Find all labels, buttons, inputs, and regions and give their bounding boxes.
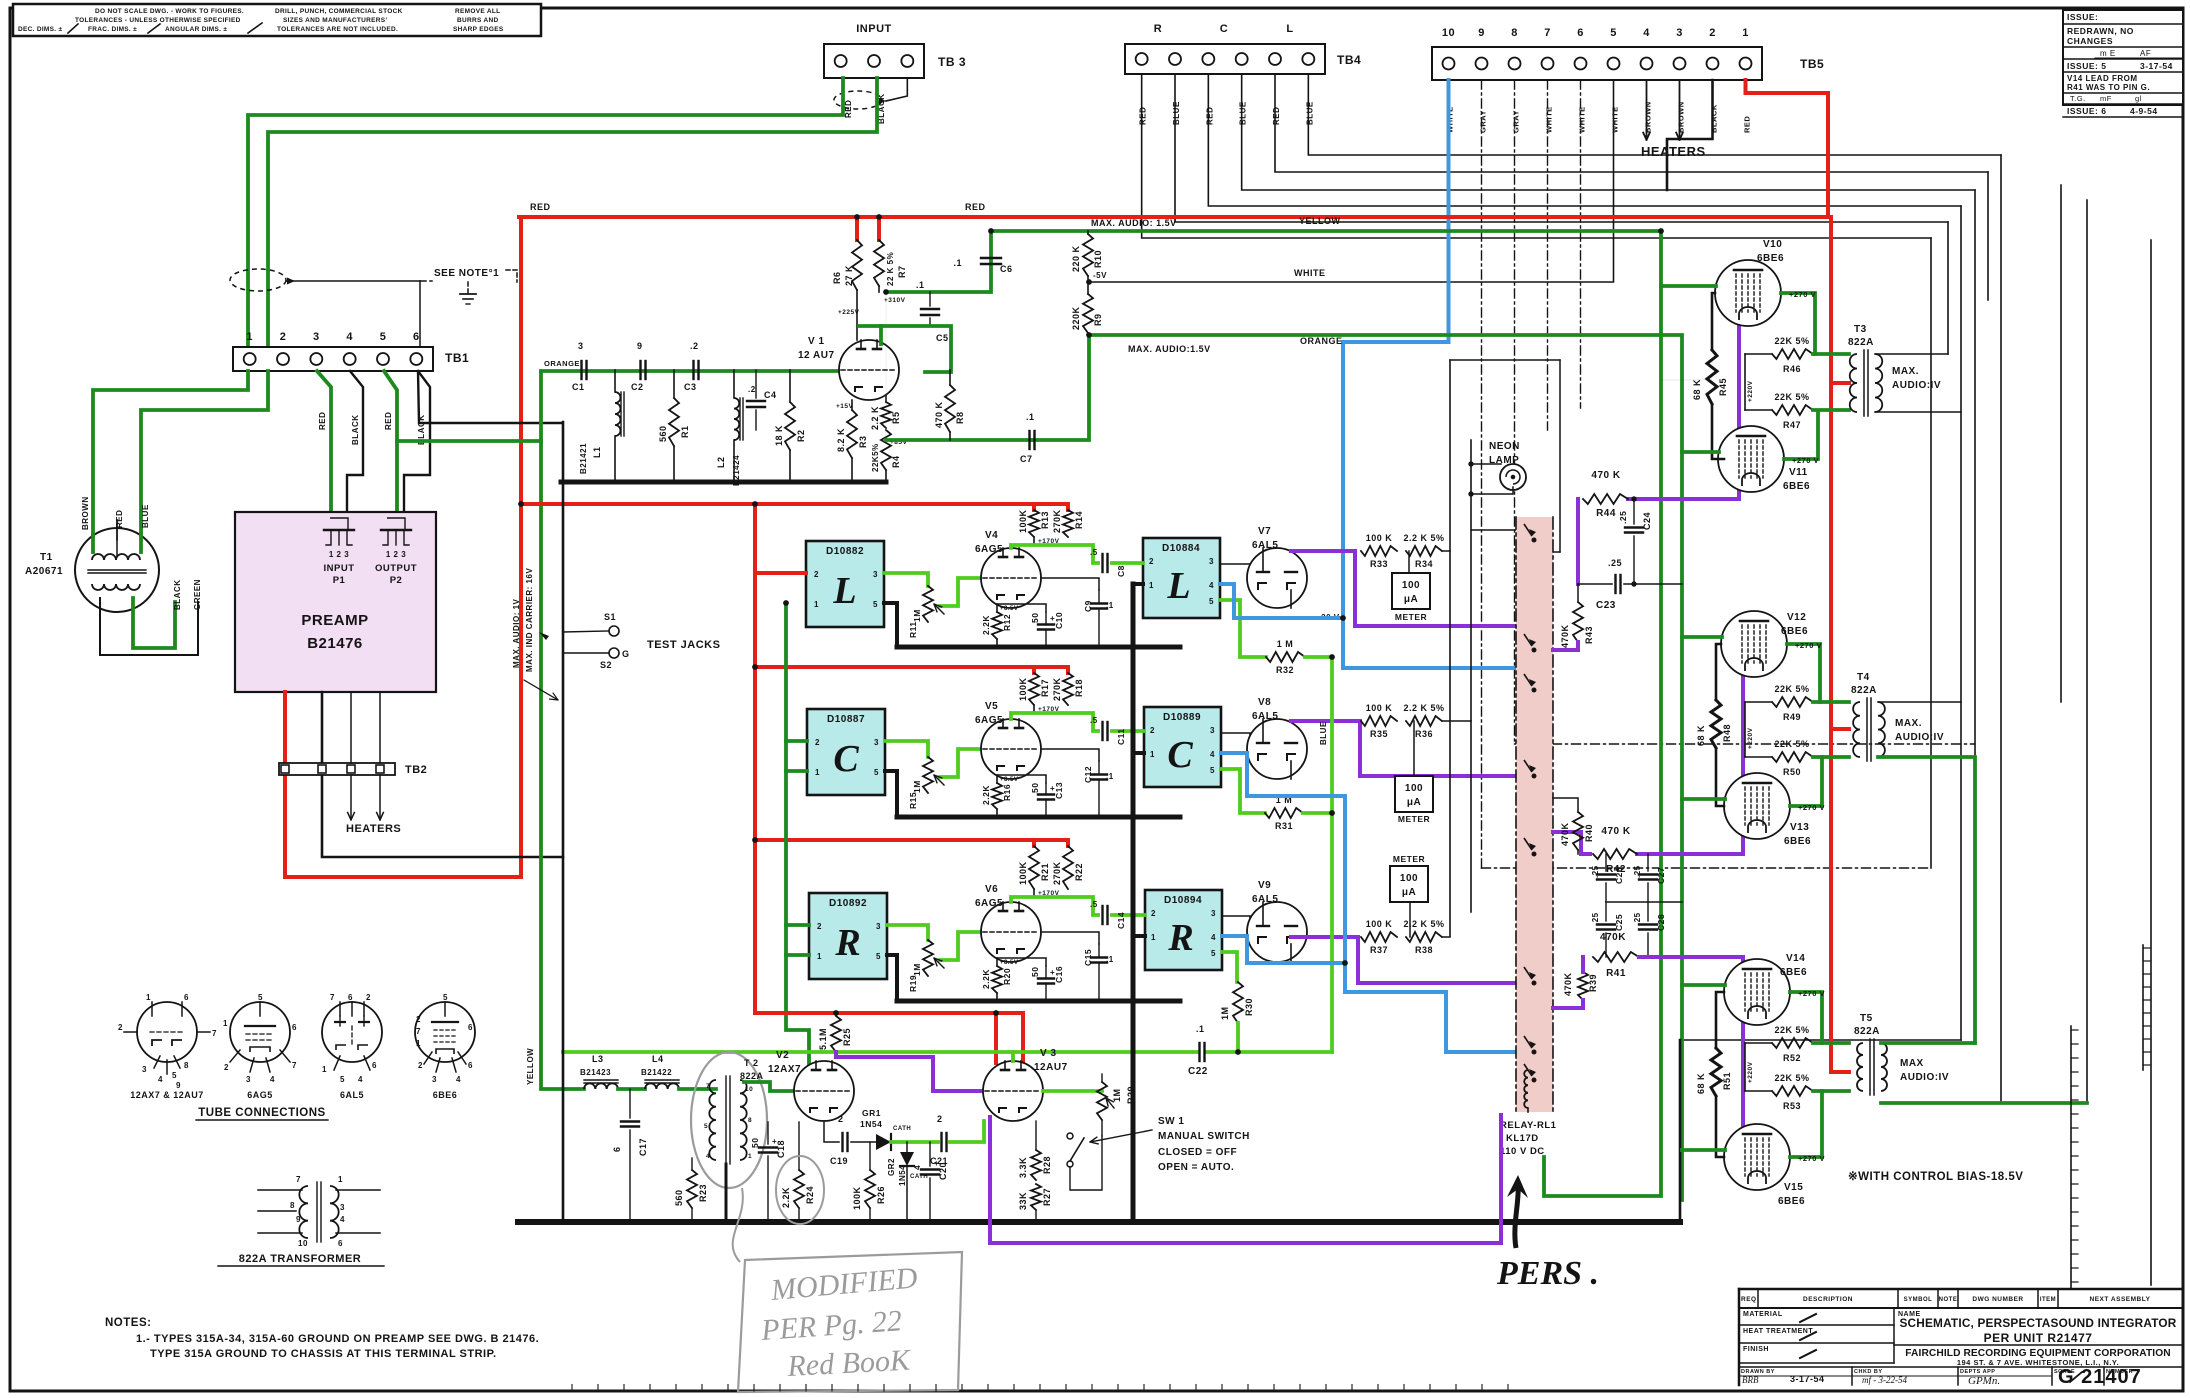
svg-text:1: 1 <box>1149 581 1154 590</box>
wire light green plate through coupling cap <box>1011 545 1098 563</box>
wire black return line above T5 <box>1680 1039 1961 1041</box>
resistor R39 470K <box>1578 972 1588 1000</box>
resistor R1 560 <box>673 370 675 398</box>
svg-text:C: C <box>1220 23 1228 35</box>
svg-text:R30: R30 <box>1244 998 1254 1016</box>
svg-text:RED: RED <box>965 202 986 212</box>
svg-text:822A: 822A <box>1848 337 1874 348</box>
svg-text:5: 5 <box>876 952 881 961</box>
svg-text:3: 3 <box>1676 27 1683 39</box>
svg-text:6: 6 <box>468 1023 473 1032</box>
svg-text:+225V: +225V <box>838 309 860 316</box>
wire green grid stub V12 <box>1682 635 1722 639</box>
svg-text:C27: C27 <box>1656 867 1666 884</box>
wire purple R44 node down to C23 node <box>1576 499 1580 584</box>
svg-text:METER: METER <box>1398 814 1430 824</box>
svg-text:MATERIAL: MATERIAL <box>1743 1311 1783 1318</box>
capacitor C23 .25 <box>1578 583 1612 585</box>
svg-text:GR2: GR2 <box>887 1158 896 1176</box>
svg-text:7: 7 <box>296 1175 301 1184</box>
svg-text:C18: C18 <box>776 1140 786 1158</box>
svg-text:mF: mF <box>2100 94 2112 103</box>
svg-text:-5V: -5V <box>1093 271 1107 280</box>
inductor L2 B21424 with C4 <box>733 370 735 398</box>
wire green TB1-5 branch right <box>397 439 541 443</box>
svg-text:68 K: 68 K <box>1696 725 1706 746</box>
svg-text:6AG5: 6AG5 <box>975 898 1003 909</box>
svg-text:1: 1 <box>322 1065 327 1074</box>
svg-text:WHITE: WHITE <box>1578 106 1587 133</box>
resistor R49 22K 5% <box>1745 701 1772 703</box>
diode GR2 1N54 <box>906 1142 908 1152</box>
ground symbol <box>506 270 517 282</box>
svg-text:L3: L3 <box>592 1054 604 1064</box>
svg-text:470K: 470K <box>1600 932 1626 943</box>
svg-text:ISSUE: 6: ISSUE: 6 <box>2067 106 2106 116</box>
resistor R37 100K <box>1361 932 1397 942</box>
thick ground bus <box>897 815 1180 820</box>
svg-text:REDRAWN, NO: REDRAWN, NO <box>2067 26 2134 36</box>
wire purple vertical V12-V13 <box>1741 677 1745 854</box>
svg-text:AUDIO:IV: AUDIO:IV <box>1892 380 1941 391</box>
wire green long vertical from TB3 black <box>539 372 543 441</box>
svg-text:6AG5: 6AG5 <box>247 1090 273 1100</box>
svg-text:V15: V15 <box>1784 1182 1803 1193</box>
svg-text:TB4: TB4 <box>1337 53 1361 67</box>
resistor R35 100K <box>1361 716 1397 726</box>
svg-text:INPUT: INPUT <box>324 563 355 574</box>
svg-text:4: 4 <box>358 1075 363 1084</box>
svg-text:3: 3 <box>142 1065 147 1074</box>
svg-text:TEST JACKS: TEST JACKS <box>647 639 720 651</box>
meter M3 100uA <box>1390 866 1428 902</box>
svg-text:R38: R38 <box>1415 945 1433 955</box>
svg-text:TYPE 315A GROUND TO CHASSIS A: TYPE 315A GROUND TO CHASSIS AT THIS TERM… <box>150 1348 497 1360</box>
wire blue D10889 pin4 chain <box>1221 753 1516 1052</box>
svg-text:822A: 822A <box>740 1071 764 1081</box>
svg-text:2: 2 <box>418 1061 423 1070</box>
svg-text:C28: C28 <box>1656 914 1666 931</box>
wire black TB1-6 to preamp P2 <box>404 371 430 512</box>
resistor R12 2.2K <box>996 604 998 612</box>
bottom border tick marks <box>571 1385 573 1392</box>
wire black T2 bottom to bus <box>725 1164 728 1222</box>
svg-text:1: 1 <box>815 768 820 777</box>
svg-text:5: 5 <box>873 600 878 609</box>
svg-text:C5: C5 <box>936 333 949 343</box>
svg-text:C26: C26 <box>1614 867 1624 884</box>
wire green pin2 stub row C <box>786 739 807 743</box>
wire green orange-bus <box>1089 335 1682 1200</box>
wire light green R32 to vertical <box>1305 657 1332 1052</box>
capacitor C13 50 <box>1045 783 1047 793</box>
svg-text:ITEM: ITEM <box>2040 1297 2056 1303</box>
capacitor C25 .25 <box>1605 902 1607 921</box>
svg-text:10: 10 <box>1442 27 1455 39</box>
svg-text:R17: R17 <box>1040 679 1050 697</box>
svg-text:1 2 3: 1 2 3 <box>329 550 349 559</box>
svg-text:MAX. IND CARRIER: 16V: MAX. IND CARRIER: 16V <box>525 568 534 672</box>
svg-text:1 M: 1 M <box>1277 639 1294 649</box>
svg-text:B21476: B21476 <box>307 635 363 652</box>
svg-text:R21: R21 <box>1040 863 1050 881</box>
svg-text:6AG5: 6AG5 <box>975 544 1003 555</box>
svg-text:1N54: 1N54 <box>898 1165 907 1186</box>
svg-text:BROWN: BROWN <box>81 496 90 530</box>
svg-text:GREEN: GREEN <box>193 579 202 610</box>
svg-text:.25: .25 <box>1618 511 1628 524</box>
svg-text:5: 5 <box>1211 949 1216 958</box>
wire shield to SEE NOTE 1 ground <box>286 280 420 282</box>
svg-text:1M: 1M <box>1112 1088 1122 1102</box>
svg-text:V4: V4 <box>985 530 998 541</box>
capacitor C2 <box>639 361 641 379</box>
wire green plate to transformer <box>1787 644 1820 702</box>
svg-text:+220V: +220V <box>1747 727 1754 749</box>
wire green TB3 pin2 left to TB1-2 <box>268 78 877 347</box>
svg-text:GR1: GR1 <box>862 1108 881 1118</box>
svg-text:R43: R43 <box>1584 626 1594 644</box>
svg-text:C6: C6 <box>1000 264 1013 274</box>
wire black TB1-4 to preamp P1 <box>347 371 363 512</box>
svg-text:R23: R23 <box>698 1184 708 1202</box>
wire light green plate through coupling cap <box>1011 713 1098 731</box>
svg-text:TUBE CONNECTIONS: TUBE CONNECTIONS <box>198 1107 325 1119</box>
pencil circle around R24 <box>776 1156 824 1224</box>
svg-text:6BE6: 6BE6 <box>1778 1196 1805 1207</box>
resistor R7 22K 5% <box>877 217 881 240</box>
svg-text:T4: T4 <box>1857 672 1870 683</box>
svg-text:R40: R40 <box>1584 824 1594 842</box>
svg-text:R36: R36 <box>1415 729 1433 739</box>
wire black right box pin1 to vertical bus <box>1133 751 1144 755</box>
svg-text:+270 V: +270 V <box>1798 1154 1825 1163</box>
svg-text:T.G.: T.G. <box>2070 94 2086 103</box>
svg-text:6: 6 <box>338 1239 343 1248</box>
svg-text:WHITE: WHITE <box>1294 268 1326 278</box>
svg-text:33K: 33K <box>1018 1192 1028 1210</box>
tube connection diagram 12AX7 <box>137 1002 197 1062</box>
wire black sense vertical 1 <box>1442 551 1450 937</box>
ruler line with ticks <box>2070 1026 2072 1289</box>
svg-text:5: 5 <box>172 1071 177 1080</box>
wire black TB5 pin2 heater return <box>1667 80 1713 190</box>
svg-text:T 2: T 2 <box>744 1058 759 1068</box>
svg-text:R46: R46 <box>1783 364 1801 374</box>
svg-text:TOLERANCES ARE NOT INCLUDED.: TOLERANCES ARE NOT INCLUDED. <box>277 26 398 33</box>
tube V3 12AU7 <box>983 1061 1043 1121</box>
svg-text:68 K: 68 K <box>1696 1073 1706 1094</box>
svg-text:12AX7: 12AX7 <box>768 1064 801 1075</box>
svg-text:BROWN: BROWN <box>1677 101 1686 133</box>
svg-text:3-17-54: 3-17-54 <box>1790 1374 1825 1384</box>
svg-text:NOTES:: NOTES: <box>105 1317 151 1329</box>
svg-text:5: 5 <box>1210 766 1215 775</box>
svg-text:2: 2 <box>416 1015 421 1024</box>
wire green V1 plate loop <box>859 326 951 372</box>
svg-text:SEE NOTE°1: SEE NOTE°1 <box>434 268 499 279</box>
svg-text:NEON: NEON <box>1489 441 1520 452</box>
terminal strip TB1 <box>233 347 433 371</box>
svg-text:6: 6 <box>184 993 189 1002</box>
svg-text:2.2 K: 2.2 K <box>870 406 880 430</box>
svg-text:.2: .2 <box>748 385 756 394</box>
svg-text:ORANGE: ORANGE <box>1300 336 1343 346</box>
wire green grid stub V13 <box>1682 797 1725 801</box>
svg-text:G: G <box>622 649 630 659</box>
title block <box>1739 1288 2183 1291</box>
inductor L3 B21423 <box>584 1083 618 1089</box>
svg-text:BLUE: BLUE <box>141 504 150 528</box>
wire green grid stub V14 <box>1682 983 1725 987</box>
svg-text:NOTE: NOTE <box>1939 1297 1958 1303</box>
svg-text:8: 8 <box>748 1117 752 1124</box>
svg-text:100: 100 <box>1402 580 1420 591</box>
thick ground bus <box>897 645 1180 650</box>
svg-text:1: 1 <box>1742 27 1749 39</box>
wire green grid stub V10 <box>1661 284 1716 288</box>
capacitor C10 50 <box>1045 612 1047 623</box>
wire green TB1-2 loop to T1 <box>141 371 268 535</box>
resistor R6 27K <box>855 217 859 240</box>
svg-text:V9: V9 <box>1258 880 1271 891</box>
svg-text:22K 5%: 22K 5% <box>1774 336 1809 346</box>
svg-text:4: 4 <box>1211 933 1216 942</box>
capacitor C9 <box>1098 590 1100 602</box>
svg-text:6: 6 <box>348 993 353 1002</box>
svg-text:100K: 100K <box>1018 861 1028 885</box>
resistor R33 100K <box>1361 546 1397 556</box>
capacitor C8 .5 <box>1101 554 1103 572</box>
resistor R42 470K <box>1593 849 1637 859</box>
wire neon connections <box>1471 463 1501 465</box>
wire red vertical to T3 T4 T5 primaries <box>1828 217 1849 1072</box>
svg-text:4: 4 <box>346 331 353 343</box>
svg-text:6: 6 <box>612 1146 622 1152</box>
wire purple R44 to V10 V11 <box>1628 319 1739 499</box>
svg-text:L1: L1 <box>592 446 602 458</box>
shield ellipse at TB1 input pair <box>230 269 286 291</box>
wire black left box pin5 to bus <box>887 955 897 1001</box>
svg-text:RED: RED <box>1139 107 1148 125</box>
svg-text:560: 560 <box>658 425 668 442</box>
wire red row L <box>521 502 1068 506</box>
svg-text:R52: R52 <box>1783 1053 1801 1063</box>
svg-text:4: 4 <box>1643 27 1650 39</box>
wire green L3 to L4 <box>618 1087 645 1091</box>
svg-text:68 K: 68 K <box>1692 379 1702 400</box>
svg-text:D10884: D10884 <box>1162 543 1200 554</box>
svg-text:G 21407: G 21407 <box>2058 1366 2142 1388</box>
resistor R23 560 <box>691 1158 693 1170</box>
wire black right box pin1 to vertical bus <box>1133 582 1143 586</box>
svg-text:METER: METER <box>1395 612 1427 622</box>
svg-text:3: 3 <box>874 738 879 747</box>
staircase wires TB4 to right side <box>1308 74 2001 155</box>
svg-text:3: 3 <box>1209 557 1214 566</box>
svg-text:R25: R25 <box>842 1028 852 1046</box>
wire relay contact output to sense line <box>1545 551 1560 553</box>
svg-text:AF: AF <box>2140 49 2151 58</box>
svg-text:DRILL, PUNCH, COMMERCIAL STOCK: DRILL, PUNCH, COMMERCIAL STOCK <box>275 8 403 15</box>
svg-text:270K: 270K <box>1052 677 1062 701</box>
svg-text:PER UNIT R21477: PER UNIT R21477 <box>1984 1331 2093 1345</box>
svg-text:※WITH CONTROL BIAS-18.5V: ※WITH CONTROL BIAS-18.5V <box>1848 1170 2023 1183</box>
svg-text:+15V: +15V <box>836 403 854 410</box>
wire light green pin3 to grid <box>885 741 928 757</box>
svg-text:GRAY: GRAY <box>1512 110 1521 133</box>
svg-text:27 K: 27 K <box>844 265 854 286</box>
svg-text:ISSUE:: ISSUE: <box>2067 12 2098 22</box>
wire green plate to transformer <box>1784 412 1818 459</box>
resistor R28 3.3K <box>1035 1121 1037 1150</box>
wire light green C21 to V3 <box>950 1121 984 1142</box>
resistor R4 22K 5% <box>881 430 891 470</box>
svg-text:10: 10 <box>298 1239 308 1248</box>
svg-text:A20671: A20671 <box>25 566 63 577</box>
wire black TB1-6 branch right <box>418 371 561 423</box>
svg-text:R44: R44 <box>1596 508 1616 519</box>
svg-text:PREAMP: PREAMP <box>301 612 368 629</box>
svg-text:R1: R1 <box>680 425 690 438</box>
legend 822A transformer symbol <box>258 1189 302 1191</box>
svg-text:3: 3 <box>246 1075 251 1084</box>
delay network D10884 box <box>1143 538 1220 618</box>
svg-text:MAX. AUDIO:1.5V: MAX. AUDIO:1.5V <box>1128 344 1211 354</box>
svg-text:R: R <box>1154 23 1162 35</box>
svg-text:2.2K: 2.2K <box>781 1187 791 1208</box>
svg-text:12 AU7: 12 AU7 <box>798 350 835 361</box>
switch SW1 <box>1101 1120 1103 1136</box>
svg-text:R6: R6 <box>832 271 842 284</box>
wire purple V2 plate to V3 grid <box>836 1052 984 1091</box>
svg-text:μA: μA <box>1404 594 1418 605</box>
wire green grid stub V15 <box>1682 1148 1725 1152</box>
connector P1 <box>324 529 354 531</box>
svg-text:AUDIO:IV: AUDIO:IV <box>1895 732 1944 743</box>
svg-text:D10889: D10889 <box>1163 712 1201 723</box>
svg-text:1: 1 <box>338 1175 343 1184</box>
svg-text:7: 7 <box>706 1083 710 1090</box>
svg-text:4: 4 <box>1209 581 1214 590</box>
svg-text:4-9-54: 4-9-54 <box>2130 106 2158 116</box>
resistor R27 33K <box>1031 1184 1041 1210</box>
svg-text:RELAY-RL1: RELAY-RL1 <box>1500 1120 1557 1131</box>
svg-text:GPMn.: GPMn. <box>1968 1375 2000 1387</box>
svg-text:V7: V7 <box>1258 526 1271 537</box>
svg-text:BLUE: BLUE <box>1172 101 1181 125</box>
svg-text:18 K: 18 K <box>774 425 784 446</box>
pot R15 1M <box>923 757 933 793</box>
svg-text:9: 9 <box>176 1081 181 1090</box>
resistor R5 2.2K <box>885 395 887 402</box>
svg-text:822A: 822A <box>1851 685 1877 696</box>
svg-text:R53: R53 <box>1783 1101 1801 1111</box>
delay network D10887 box <box>807 709 885 795</box>
wire red row R <box>755 838 1066 842</box>
svg-text:V13: V13 <box>1790 822 1809 833</box>
wire purple R41 to V14 <box>1639 955 1743 959</box>
svg-text:BLACK: BLACK <box>1710 104 1719 133</box>
wire green TB1-1 loop to T1 <box>93 371 248 535</box>
svg-text:R32: R32 <box>1276 665 1294 675</box>
svg-text:INPUT: INPUT <box>856 23 892 35</box>
pencil leader from T2 <box>733 1188 743 1262</box>
tube V14 6BE6 <box>1724 959 1790 1025</box>
wire light green pin3 to grid <box>887 925 928 940</box>
resistor R14 270K <box>1066 504 1070 510</box>
svg-text:22K 5%: 22K 5% <box>1774 684 1809 694</box>
wire purple diode output to relay <box>1291 721 1516 776</box>
svg-text:470 K: 470 K <box>934 401 944 428</box>
terminal strip TB2 <box>279 763 395 775</box>
svg-text:7: 7 <box>330 993 335 1002</box>
resistor R36 2.2K 5% <box>1406 716 1442 726</box>
svg-text:R50: R50 <box>1783 767 1801 777</box>
wire black tube internal to caps <box>1041 932 1099 944</box>
svg-text:R: R <box>1167 917 1193 959</box>
svg-text:1 2 3: 1 2 3 <box>386 550 406 559</box>
wire black right box pin1 to vertical bus <box>1133 934 1145 938</box>
tube connection diagram 6AL5 <box>322 1002 382 1062</box>
wire black tube internal to caps <box>1041 749 1099 761</box>
wire light green plate through coupling cap <box>1011 897 1098 915</box>
wire green V1 grid line <box>541 369 840 373</box>
wire purple diode output to relay <box>1291 551 1516 626</box>
wire purple vertical V14-V15 <box>1741 957 1745 1128</box>
wire green plate to transformer <box>1790 1091 1822 1157</box>
svg-text:.5: .5 <box>1090 716 1098 725</box>
svg-text:C17: C17 <box>638 1138 648 1156</box>
meter M1 100uA <box>1392 573 1430 609</box>
svg-text:470 K: 470 K <box>1591 470 1620 481</box>
svg-text:4: 4 <box>706 1153 710 1160</box>
capacitor C17 <box>629 1089 631 1118</box>
svg-text:R51: R51 <box>1722 1072 1732 1090</box>
svg-text:5: 5 <box>704 1123 708 1130</box>
svg-text:RED: RED <box>318 412 327 430</box>
resistor R40 470K <box>1573 812 1583 850</box>
capacitor C4 <box>755 370 757 398</box>
svg-text:50: 50 <box>750 1138 760 1148</box>
svg-text:WHITE: WHITE <box>1611 106 1620 133</box>
tube V10 6BE6 <box>1715 260 1781 326</box>
svg-text:2: 2 <box>1151 909 1156 918</box>
wire dashed TB5 drops <box>1481 80 1483 868</box>
tube V5 6AG5 <box>981 719 1041 779</box>
wire green R9 down to C7 line <box>1032 335 1089 440</box>
resistor R45 68K <box>1707 350 1717 404</box>
svg-text:RED: RED <box>1272 107 1281 125</box>
svg-text:10: 10 <box>745 1086 753 1093</box>
wire light green R30 to C22 bus <box>1236 1023 1240 1052</box>
svg-text:R8: R8 <box>955 411 965 424</box>
svg-text:R28: R28 <box>1042 1156 1052 1174</box>
svg-text:BROWN: BROWN <box>1644 101 1653 133</box>
meter M2 100uA <box>1395 776 1433 812</box>
svg-text:1N54: 1N54 <box>860 1119 882 1129</box>
wire red preamp bottom to right bus <box>285 692 521 877</box>
svg-text:+270 V: +270 V <box>1789 290 1816 299</box>
svg-text:C23: C23 <box>1596 600 1616 611</box>
heater arrows below TB2 <box>350 692 352 763</box>
svg-text:270K: 270K <box>1052 861 1062 885</box>
capacitor C21 2 <box>940 1133 942 1151</box>
resistor R18 270K <box>1066 667 1070 673</box>
svg-text:7: 7 <box>416 1027 421 1036</box>
wire black tube internal to caps <box>1041 578 1099 590</box>
svg-text:C19: C19 <box>830 1156 848 1166</box>
